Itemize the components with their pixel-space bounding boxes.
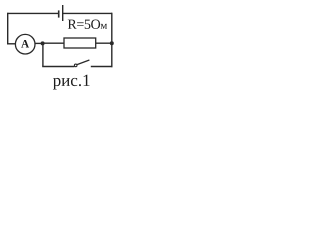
ammeter letter A <box>21 40 29 47</box>
wire switch to right vertical <box>91 66 113 68</box>
wire branch down from node A <box>42 43 44 66</box>
battery short plate (negative) <box>58 10 60 17</box>
node A junction dot <box>41 41 45 45</box>
label R=5Ом <box>68 20 107 29</box>
wire bottom-left horizontal to switch <box>42 66 74 68</box>
wire resistor to node B <box>96 42 112 44</box>
ammeter A1 circle <box>15 34 35 54</box>
wire stub to ammeter <box>7 43 15 45</box>
resistor R1 body <box>64 38 96 48</box>
node B junction dot <box>110 41 114 45</box>
wire right vertical <box>111 13 113 67</box>
battery long plate (positive) <box>62 5 64 21</box>
wire left vertical <box>7 13 9 44</box>
switch S1 pivot contact <box>74 64 77 67</box>
label рис.1 <box>53 75 90 90</box>
wire ammeter to node A <box>35 42 43 44</box>
switch S1 blade <box>77 60 89 65</box>
wire top-left horizontal <box>8 12 58 14</box>
wire node A to resistor <box>43 42 64 44</box>
wire top-right horizontal <box>63 12 112 14</box>
